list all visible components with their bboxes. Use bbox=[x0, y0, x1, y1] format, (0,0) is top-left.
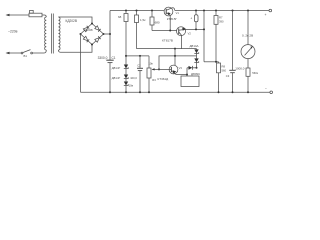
wire top bus right bbox=[175, 10, 269, 12]
node emitter to box feed bbox=[186, 74, 188, 76]
node tap crossing bbox=[174, 55, 176, 57]
svg-text:+: + bbox=[265, 13, 267, 17]
transformer T1 secondary coil bbox=[58, 17, 60, 50]
svg-text:Д814А: Д814А bbox=[190, 44, 199, 48]
svg-text:КТ817В: КТ817В bbox=[162, 39, 173, 43]
svg-text:1,5к: 1,5к bbox=[140, 18, 146, 22]
wire bridge plus to top bus bbox=[104, 11, 111, 35]
zener VD6 D814A bbox=[194, 58, 198, 67]
wire negative rail down bbox=[80, 34, 82, 92]
svg-text:1000,0: 1000,0 bbox=[235, 66, 245, 70]
svg-text:R3: R3 bbox=[152, 78, 156, 82]
resistor R3 680 bbox=[150, 10, 154, 31]
svg-text:V2: V2 bbox=[188, 32, 192, 36]
node bridge left vertex bbox=[80, 33, 82, 35]
svg-text:Д814Г: Д814Г bbox=[112, 66, 121, 70]
svg-text:КТ361Д: КТ361Д bbox=[158, 77, 169, 81]
zener VD7 D814G bbox=[124, 65, 128, 75]
resistor R1 68 bbox=[124, 10, 128, 65]
node bridge bottom vertex bbox=[91, 44, 93, 46]
wire Q3 collector bbox=[174, 49, 176, 66]
switch B1 bbox=[6, 50, 45, 55]
zener VD9 bbox=[124, 82, 128, 94]
label 3300,0 C1 bbox=[98, 56, 116, 60]
svg-text:С1: С1 bbox=[112, 56, 116, 60]
output terminal plus bbox=[265, 9, 272, 17]
svg-text:КД202В: КД202В bbox=[84, 29, 93, 32]
zener VD5 D814A bbox=[194, 49, 198, 59]
svg-text:560к: 560к bbox=[252, 71, 258, 75]
svg-text:10к: 10к bbox=[148, 62, 153, 66]
svg-text:~220в: ~220в bbox=[8, 29, 18, 33]
input terminal top bbox=[6, 14, 10, 17]
resistor R4 390 bbox=[214, 10, 218, 62]
diode VD10 bbox=[187, 66, 197, 70]
svg-text:−: − bbox=[265, 87, 267, 91]
output terminal minus bbox=[265, 87, 273, 94]
svg-text:Д814Г: Д814Г bbox=[112, 76, 121, 80]
svg-text:Д809С: Д809С bbox=[191, 72, 201, 76]
diode V4 at top bus bbox=[194, 10, 198, 30]
svg-text:R8: R8 bbox=[222, 65, 226, 69]
wire plus rail to C1 bbox=[109, 34, 111, 60]
svg-text:10в: 10в bbox=[129, 83, 134, 87]
wire box feed bbox=[186, 68, 188, 76]
node bridge top vertex bbox=[91, 23, 93, 25]
svg-text:КД202В: КД202В bbox=[66, 19, 77, 23]
capacitor C5 100uF bbox=[137, 56, 143, 93]
transformer T1 primary coil bbox=[45, 17, 47, 50]
node Q1 base junction bbox=[169, 30, 171, 32]
svg-text:680: 680 bbox=[155, 20, 160, 24]
capacitor C4 1000uF bbox=[229, 10, 235, 94]
node zener to emitter wire bbox=[196, 67, 198, 69]
svg-text:V3: V3 bbox=[179, 66, 183, 70]
node bridge right vertex bbox=[103, 33, 105, 35]
transistor V3 KT361D bbox=[152, 65, 187, 74]
transformer T1 core bbox=[51, 14, 53, 54]
wire base line Q1 Q2 bbox=[152, 30, 177, 32]
svg-text:+: + bbox=[190, 16, 192, 20]
wire input to fuse bbox=[8, 14, 29, 16]
label R4 390 bbox=[219, 16, 224, 24]
wire secondary bottom to bridge bbox=[58, 45, 92, 53]
bridge rectifier VD1-VD4 bbox=[81, 24, 104, 45]
zener VD8 D814G bbox=[124, 75, 128, 82]
svg-text:560: 560 bbox=[222, 69, 227, 73]
voltmeter PV1 bbox=[241, 10, 255, 69]
potentiometer R7 10k bbox=[147, 56, 151, 93]
svg-text:390: 390 bbox=[219, 20, 224, 24]
svg-text:0, 2в 2В: 0, 2в 2В bbox=[242, 33, 253, 37]
resistor R5 560 bbox=[217, 62, 221, 94]
svg-text:V1: V1 bbox=[176, 11, 180, 15]
wire output node to R5 bbox=[204, 61, 219, 63]
box stabilizer bbox=[181, 76, 199, 87]
svg-text:3300,0: 3300,0 bbox=[98, 56, 108, 60]
label R5 560 bbox=[222, 65, 227, 73]
node C1 bottom bbox=[109, 91, 111, 93]
capacitor C1 3300uF bbox=[106, 60, 113, 92]
transistor V2 KT817 bbox=[177, 27, 205, 49]
node Q3 collector junction bbox=[174, 48, 176, 50]
node tap to base bbox=[158, 68, 160, 70]
svg-text:R7: R7 bbox=[219, 16, 223, 20]
svg-text:68: 68 bbox=[118, 15, 122, 19]
wire Q2 emitter riser bbox=[203, 10, 205, 62]
svg-text:С2: С2 bbox=[137, 64, 141, 68]
node ref tap C5 bbox=[139, 55, 141, 57]
fuse F1 bbox=[29, 10, 42, 16]
svg-text:100,0: 100,0 bbox=[130, 76, 137, 80]
node ref tap left bbox=[125, 55, 127, 57]
wire error amp tap bbox=[159, 56, 197, 70]
wire bottom bus bbox=[81, 91, 270, 93]
wire fuse to transformer primary bbox=[42, 15, 46, 17]
wire secondary top to bridge bbox=[58, 17, 92, 24]
wire switch to primary bottom bbox=[44, 50, 46, 53]
svg-text:С3: С3 bbox=[226, 74, 230, 78]
node plus rail junction bbox=[109, 33, 111, 35]
transistor V1 KT815G bbox=[164, 7, 175, 30]
resistor R2 1,5k bbox=[135, 10, 139, 49]
wire R2 to Q2 collector bbox=[137, 48, 197, 50]
wire top bus left bbox=[110, 10, 164, 12]
resistor R6 560k meter bbox=[246, 68, 250, 93]
svg-text:КТ815Г: КТ815Г bbox=[167, 17, 178, 21]
svg-text:В1: В1 bbox=[24, 54, 28, 58]
potentiometer wiper arrow bbox=[152, 68, 155, 70]
wire zener ref tap bbox=[126, 55, 149, 57]
